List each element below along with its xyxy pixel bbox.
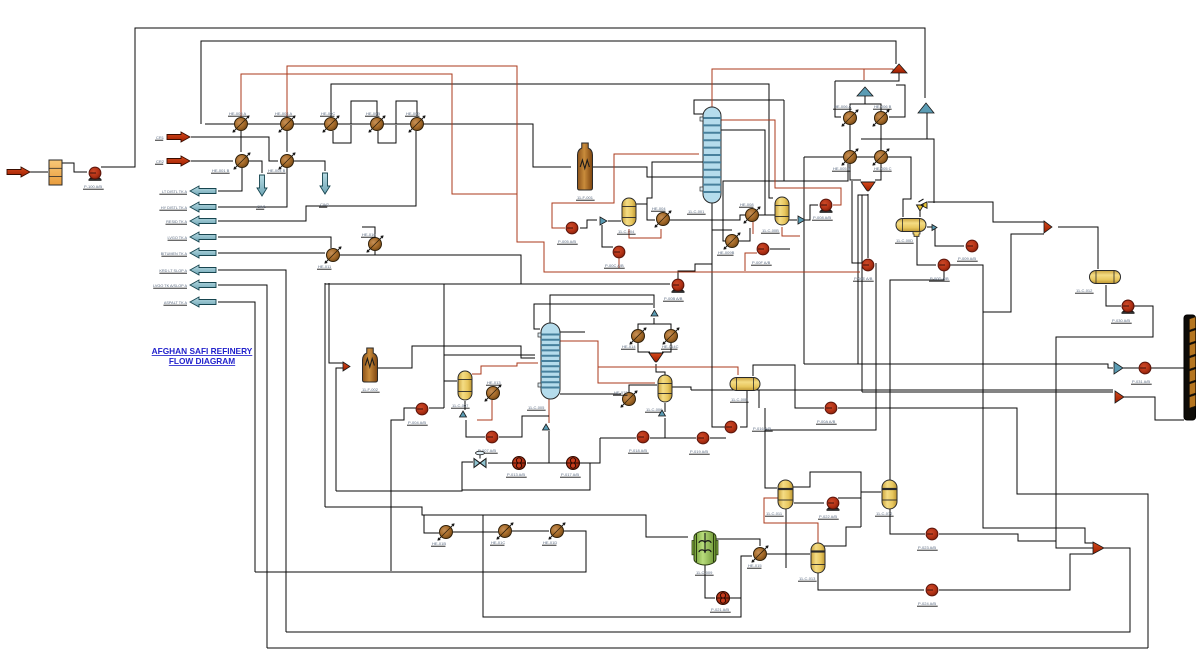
wire HE-011 outlet [340,255,521,284]
vent tee [651,310,658,316]
svg-text:P-00B A/B: P-00B A/B [664,296,683,301]
wire HE chain a [453,531,498,533]
wire 11-C-00B to tee [789,219,797,221]
wire overhead to flare [864,69,893,73]
wire 11-C-0?2 bottoms to P-023 [890,509,925,534]
wire column top loop [783,100,785,181]
svg-text:11-F-002: 11-F-002 [362,387,379,392]
wire hot feed loop to P-005 [552,154,699,228]
svg-text:P-024 A/B: P-024 A/B [918,601,936,606]
wire to pump P-00F [770,248,790,250]
flare stack [891,64,907,73]
wire hot draw to P-008 [721,120,841,205]
wire KRD LT SLOP drop [218,270,286,632]
separator 11-C-00B [775,197,789,225]
wire mixer to pump [867,194,869,258]
pump P-018 A/B [637,431,649,443]
pump P-00E A/B [862,259,874,271]
svg-text:RESID TK A: RESID TK A [166,220,187,224]
svg-text:LT DISTL TK A: LT DISTL TK A [162,190,187,194]
wire drum to pump P-00D [917,236,936,265]
wire hot feed 11-C-00E [598,367,738,375]
svg-text:P-031 A/B: P-031 A/B [1132,379,1150,384]
wire pump tap [618,258,620,268]
wire 11-C-011 overhead [793,472,861,527]
wire HE chain b [512,530,549,532]
wire product header 1 [804,364,1113,368]
svg-text:AFGHAN SAFI REFINERY: AFGHAN SAFI REFINERY [152,346,253,356]
pump P [1122,300,1134,312]
wire P-00A discharge loop east [838,408,1148,648]
wire P-00D discharge [950,265,983,312]
pump P-007 A/B [486,431,498,443]
wire LVGO SLOP drop [218,285,267,648]
wire 11-C-013 overhead [824,527,861,546]
svg-text:HE-008: HE-008 [740,202,754,207]
stream CW1 [257,175,267,196]
wire tee to pump P-008 [803,205,818,220]
svg-text:11-C-011: 11-C-011 [766,511,783,516]
wire column bottoms riser [712,203,726,427]
svg-text:HE-005 A: HE-005 A [229,111,246,116]
svg-text:P-017 A/B: P-017 A/B [561,472,579,477]
horizontal drum 11-C-00D [896,219,926,237]
heat exchanger HE-004 A [278,115,295,132]
heat exchanger HE-009 [408,115,425,132]
heat exchanger HE-001 B [233,152,250,169]
svg-text:HE-01D: HE-01D [543,540,557,545]
heat exchanger HE-014 [629,327,646,344]
wire tee to P-019 [665,418,696,438]
svg-text:P-004 A/B: P-004 A/B [408,420,426,425]
wire tee to P-00C [602,225,613,247]
svg-text:P-021 A/B: P-021 A/B [711,607,729,612]
wire BITUMEN tank header [218,252,325,254]
stream ASPALT TK A [190,297,216,307]
svg-text:11-C-00E: 11-C-00E [731,397,748,402]
wire 11-C-005 overhead to vent tee [550,295,654,323]
diesel product tee [1114,362,1123,374]
wire HE to mixer [662,343,671,352]
wire to 11-C-005 inlet [444,354,535,356]
wire to manifold bottom [1123,397,1184,420]
svg-text:P-00F A/B: P-00F A/B [752,260,771,265]
wire ASPALT drop [218,302,255,572]
wire HE-006A to HE-006C [849,125,851,150]
atmospheric vent tee [857,87,873,96]
svg-text:P-00A A/B: P-00A A/B [817,419,836,424]
wire 11-C-005 draw to 11-C-006 [560,341,655,383]
tee to heater [343,362,350,371]
svg-text:11-C-005: 11-C-005 [528,405,545,410]
wire HE-013 bottoms [477,400,492,420]
product tee [1115,391,1124,403]
wire vessel bottoms to pump [818,573,924,590]
wire tee to HE-0?? A [638,318,654,329]
wire relief header east [928,202,1044,222]
wire vent header to HE-006A [835,81,841,117]
wire LVGO header to HE-011 [218,237,331,248]
svg-text:BITUMEN TK A: BITUMEN TK A [161,252,188,256]
wire to LT DISTL tank [218,168,242,191]
feed tank T-100 [49,160,62,185]
horizontal drum 11-C-012 [1090,271,1121,284]
wire to HE-012 [560,393,621,395]
wire P-00F suction [745,253,757,271]
wire cross header [861,139,934,203]
wire P-00E discharge riser [765,263,876,430]
wire pump out [710,437,726,439]
pump P-022 A/B [827,497,840,511]
wire RESID header from HE-009 [218,131,416,221]
heat exchanger HE-004 [654,210,671,227]
horizontal drum 11-C-00E [730,378,760,391]
svg-text:P-013 A/B: P-013 A/B [507,472,525,477]
svg-text:P-030 A/B: P-030 A/B [1112,318,1130,323]
wire HE-006B out riser [889,85,905,117]
wire valve bottoms [336,462,473,491]
wire to pump P-018 [600,437,636,439]
svg-text:HE-00B: HE-00B [366,111,380,116]
svg-text:HE-00C: HE-00C [321,111,335,116]
wire P-00D discharge to 11-C-0?2 [890,271,944,480]
stream LVGO TK A/SLOP A [190,280,216,290]
heat exchanger HE-011 [324,246,341,263]
wire drum bottoms stub [758,390,760,408]
svg-text:P-022 A/B: P-022 A/B [819,514,837,519]
wire 11-C-011 bottoms [785,509,787,568]
svg-text:P-00E A/B: P-00E A/B [854,276,873,281]
wire pump P-100 discharge to flare tee [101,28,925,167]
separator 11-C-0?2 [882,480,897,509]
wire tank to pump P-100 [61,163,87,172]
wire HE-00B upper loop [351,101,377,124]
separator 11-C-004 [622,198,636,226]
wire P-00B discharge [678,264,712,279]
pump P-023 A/B [926,528,938,540]
separator 11-C-006 [658,375,672,402]
wire gear pump link [527,462,566,464]
wire 11-C-004 to HE-004 [636,204,655,220]
heat exchanger HE-008 [743,206,760,223]
wire column overhead to HE-008 [721,130,765,215]
wire bottom return header [255,532,586,572]
svg-text:CW1: CW1 [257,204,267,209]
gear pump P-017 A/B [567,457,580,470]
stream LT DISTL TK A [190,186,216,196]
wire tee to HE-006A [850,96,865,111]
pump P-00A A/B [825,402,837,414]
wire bottom outer header [267,647,1148,649]
stream RESID TK A [190,216,216,226]
wire HE-008 to HE-009B [752,222,754,234]
fired heater 11-F-001 [578,143,593,190]
svg-text:11-C-00B: 11-C-00B [762,228,779,233]
wire tee to 11-C-012 [1058,227,1098,269]
wire hot feed 11-C-005 [472,363,538,374]
pump P-004 A/B [416,403,428,415]
wire hot loop top header [201,41,896,124]
wire P-005 to tee [580,220,597,228]
reactor 11-C-009 [692,531,718,565]
pump P-00D A/B [938,259,950,271]
wire HE-006D to mixer [875,164,881,180]
wire 11-C-004 vapor to column [647,177,652,204]
pump P-030 A/B [1122,300,1135,314]
wire funnel branch to header 2 [862,195,868,392]
wire pump link [650,437,680,439]
pump P-00C A/B [613,246,625,258]
wire 11-C-005 overhead [560,331,585,333]
tee junction [798,216,805,224]
svg-text:HE-004 B: HE-004 B [268,168,286,173]
wire hot bypass A [241,74,517,194]
wire gear pump out [730,598,741,617]
wire to gear pumps [549,431,565,463]
svg-text:HE-006 B: HE-006 B [874,104,892,109]
svg-text:HE-011: HE-011 [318,264,332,269]
tee [659,410,666,416]
wire product header 2a [691,389,1113,391]
wire hot bypass B [287,66,860,272]
wire HE-00B lower loop [378,125,396,143]
pump P-00B A/B [672,279,685,293]
heat exchanger HE-015 [751,545,768,562]
wire feed HE-01B [424,515,439,533]
svg-text:CR2: CR2 [156,159,165,164]
heat exchanger HE-005 A [232,115,249,132]
stream CR1 [167,132,190,142]
svg-text:11-C-009: 11-C-009 [696,570,713,575]
relief valve RV-001 [917,199,928,211]
wire asphalt tee outlet to bottom header [286,548,1130,632]
svg-text:KRD LT SLOP A: KRD LT SLOP A [159,269,187,273]
wire HE-004B to CW2 [294,161,325,171]
svg-text:LVGO TK A: LVGO TK A [168,236,188,240]
pump P-016 A/B [725,421,737,433]
heat exchanger HE-00B [368,115,385,132]
stream KRD LT SLOP A [190,265,216,275]
feed stream CRUDE [7,167,30,177]
wire stair header to HE-015 [325,507,752,617]
wire vent tee stub [926,113,928,139]
wire HE-010 top stub [362,227,375,237]
wire P-022 discharge [838,497,861,499]
svg-text:P-009 A/B: P-009 A/B [958,256,976,261]
heat exchanger HE-0?2 [620,390,637,407]
svg-text:P-100 A/B: P-100 A/B [84,184,102,189]
svg-text:HE-005 C: HE-005 C [874,166,892,171]
wire HE-012 to 11-C-006 [629,385,657,392]
mixer MIX-100 [861,182,875,191]
heat exchanger HE-004 B [278,152,295,169]
wire HE to mixer [638,343,650,352]
separator 11-C-007 [458,371,472,400]
wire pump to manifold [1151,367,1184,369]
gear pump P-013 A/B [513,457,526,470]
wire column top left loop [694,100,712,114]
wire tee to HE-0?? B [654,324,671,329]
svg-text:HE-015: HE-015 [748,563,762,568]
heat exchanger HE-014C [662,327,679,344]
svg-text:11-C-001: 11-C-001 [688,209,705,214]
svg-text:P-00D A/B: P-00D A/B [930,276,949,281]
pump P-00F A/B [757,243,769,255]
wire header to pump P-00B [325,283,670,285]
tee [543,424,550,430]
wire to HE-009 [712,229,732,231]
wire HE-008 to 11-C-00B [759,214,775,216]
wire west riser [324,283,326,507]
tee to 11-C-012 [1044,221,1052,233]
product manifold [1184,315,1196,420]
wire tee to HE-006B [865,104,881,111]
tee at drum outlet [932,225,937,231]
wire vent header to flare [835,71,899,81]
pump P-024 A/B [926,584,938,596]
wire gear pump loop [462,463,590,490]
svg-text:HE-004 A: HE-004 A [275,111,292,116]
wire 11-C-006 bottoms [664,403,666,412]
wire 11-C-00B bottoms [782,227,800,236]
mixer MIX-101 [649,353,663,362]
heat exchanger HE-009B [723,232,740,249]
pump P-019 A/B [697,432,709,444]
heat exchanger HE-00C [322,115,339,132]
wire column upper feed [652,162,704,177]
svg-text:HE-005 B: HE-005 B [833,166,851,171]
svg-text:P-008 A/B: P-008 A/B [813,215,831,220]
pump P-031 A/B [1139,362,1151,374]
tee [460,411,467,417]
wire crude preheat train to heater H-001 [205,124,571,167]
wire HE-009 upper loop [396,101,417,124]
wire to 11-C-012 vessel [861,491,881,493]
svg-text:11-C-004: 11-C-004 [618,229,635,234]
wire HE-004A to HE-004B [286,131,288,152]
svg-text:HE-001 B: HE-001 B [212,168,230,173]
wire gear pump to valve [488,462,512,464]
wire HE-004 out [670,215,746,220]
heat exchanger HE-005 C [872,148,889,165]
svg-text:P-016 A/B: P-016 A/B [753,426,771,431]
wire HE-00C lower loop [333,125,351,143]
svg-text:HE-014C: HE-014C [662,344,679,349]
wire relief valve stub [919,208,921,217]
tee junction [600,217,607,225]
svg-text:HE-01C: HE-01C [491,540,505,545]
wire header to relief drum [804,157,911,217]
wire riser to products header [803,157,805,364]
svg-text:CW2: CW2 [320,202,330,207]
svg-text:11-C-006: 11-C-006 [646,407,663,412]
stream LVGO TK A [190,232,216,242]
stream HY DISTL TK A [190,202,216,212]
fired heater 11-F-002 [363,348,378,382]
stream CR2 [167,156,190,166]
wire HE-001B to CW1 [249,161,262,173]
separator 11-C-013 [811,543,825,573]
wire CR1 feed [191,137,278,161]
heat exchanger HE-006 B [872,109,889,126]
wire heater outlet to column [592,167,704,177]
stream CW2 [320,173,330,194]
svg-text:11-C-0?2: 11-C-0?2 [876,511,893,516]
wire P-023 discharge [939,534,1056,541]
wire 11-C-011 to P-022 [794,502,824,504]
pump P-008 A/B [820,199,833,213]
wire to HY DISTL tank [218,168,287,207]
svg-text:11-C-012: 11-C-012 [1076,288,1093,293]
wire 11-C-005 bottoms [548,399,550,423]
wire drum to pump P-009 [927,227,964,246]
heat exchanger HE-005 B [841,148,858,165]
pump P-100 A/B [89,167,102,181]
svg-text:FLOW DIAGRAM: FLOW DIAGRAM [169,356,235,366]
wire 11-C-004 bottoms [629,229,661,238]
svg-text:HE-009: HE-009 [406,111,420,116]
wire reactor outlet [716,539,760,546]
wire HE-005B bottoms [723,164,848,241]
wire P-004 suction [429,407,444,409]
wire gear pump discharge riser [580,438,600,463]
wire drum 11-C-00E vapor to P-00A [753,365,824,408]
svg-text:HE-009B: HE-009B [718,250,735,255]
wire HE-006B to HE-006D [880,125,882,150]
wire vessel bottoms to tee [464,401,466,410]
wire 11-C-012 to pump P-030 [1106,285,1121,306]
svg-text:P-018 A/B: P-018 A/B [629,448,647,453]
wire drum bottoms to P-016 [740,390,747,427]
heat exchanger HE-01C [496,522,513,539]
svg-text:HE-0?2: HE-0?2 [614,390,628,395]
wire HE chain return [564,531,586,572]
svg-text:11-F-001: 11-F-001 [577,195,594,200]
distillation column 11-C-001 [700,107,721,203]
svg-text:HY DISTL TK A: HY DISTL TK A [161,206,188,210]
wire mixer to 11-C-006 [656,364,665,375]
wire tee to pump P-007 [466,420,485,437]
svg-text:HE-004: HE-004 [652,206,666,211]
pump P-005 A/B [566,222,578,234]
svg-text:11-C-007: 11-C-007 [452,403,469,408]
wire riser x444 [443,284,445,408]
wire HE-015 to 11-C-013 [767,553,810,555]
distillation column 11-C-005 [538,323,560,399]
svg-text:ASPALT TK A: ASPALT TK A [164,301,188,305]
svg-text:HE-01B: HE-01B [432,541,446,546]
wire funnel branch to header 1 [858,195,868,364]
wire long header to 11-C-00B [331,84,773,198]
svg-text:P-019 A/B: P-019 A/B [690,449,708,454]
wire HE-010 stub [374,251,376,255]
wire to reactor 11-C-009 [483,515,688,537]
heat exchanger HE-01B [437,523,454,540]
heat exchanger HE-01D [548,522,565,539]
svg-text:P-00C A/B: P-00C A/B [605,263,624,268]
wire to 11-C-007 [444,380,457,382]
wire H-002 outlet to 11-C-005 [377,346,535,368]
wire hot link [764,498,818,543]
svg-text:P-023 A/B: P-023 A/B [918,545,936,550]
wire heater H-002 feed riser [336,368,343,491]
heat exchanger HE-010 [366,235,383,252]
wire tee to pump [1123,367,1139,369]
wire P-030 discharge to asphalt tee [1056,306,1153,548]
wire east riser to asphalt tee [983,234,1093,543]
wire HE-006C to mixer [850,164,861,180]
wire CR2 feed [191,160,233,162]
